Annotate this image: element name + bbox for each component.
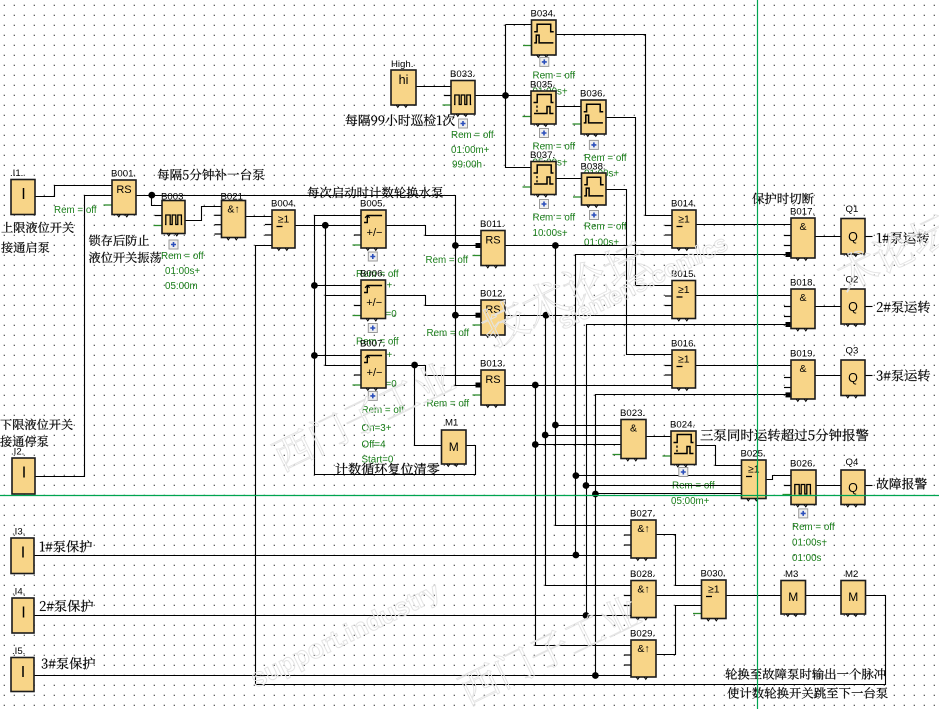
svg-text:B003: B003 (161, 192, 183, 203)
svg-text:.I1.: .I1. (10, 168, 23, 179)
svg-text:B025.: B025. (741, 449, 766, 460)
wire Q1 tag dash (866, 236, 873, 238)
svg-text:M: M (449, 440, 459, 454)
wire B019 out to Q3 (816, 375, 842, 377)
AND B019 (784, 349, 815, 402)
junction B012 line at B023.in2 (542, 432, 549, 439)
wire B006 out to B012.S (387, 296, 482, 306)
svg-text:&↑: &↑ (637, 523, 649, 535)
edge AND B028 (624, 569, 656, 620)
wiping relay B034 (523, 9, 556, 58)
wire B003 out to B021.in1 (186, 207, 222, 221)
junction B001 out / B003 branch (148, 192, 155, 199)
svg-text:High.: High. (391, 59, 413, 70)
svg-text:01:00m+: 01:00m+ (451, 145, 490, 156)
pin square B019.in4 (786, 392, 792, 397)
svg-text:B037.: B037. (530, 150, 555, 161)
junction B013 line at B023.in3 (532, 441, 539, 448)
note interval 5min (158, 169, 265, 181)
junction B007 out to M1 (411, 362, 418, 369)
wire B025.in4 tap (596, 493, 742, 495)
wire B015 out to B018.in1 (696, 295, 792, 297)
input I5 pump3 protect (11, 646, 34, 692)
svg-text:B001.: B001. (111, 169, 136, 180)
wire B005 out to B011.S (387, 226, 482, 236)
up/down counter B007 (353, 339, 387, 391)
wire Q3 tag dash (866, 375, 873, 377)
svg-text:Q: Q (848, 481, 858, 495)
up/down counter B006 (353, 269, 386, 321)
page break line horizontal (0, 495, 939, 497)
svg-text:≥1: ≥1 (678, 214, 690, 226)
junction I5 riser at B025.in4 (592, 491, 599, 498)
note three pumps alarm (701, 429, 869, 441)
svg-text:+: + (387, 281, 393, 292)
svg-text:.I4.: .I4. (12, 587, 25, 598)
svg-text:&: & (630, 423, 637, 435)
junction R bus at B006.R (311, 282, 318, 289)
param expand B037 (540, 200, 549, 209)
svg-text:B029.: B029. (630, 629, 655, 640)
wire B018 out to Q2 (816, 306, 842, 308)
note upper switch line1 (2, 222, 74, 233)
flag M2 (841, 569, 866, 616)
svg-text:M1: M1 (445, 418, 458, 429)
note count rotate (308, 187, 443, 199)
svg-text:Rem = off: Rem = off (584, 222, 627, 233)
note lower switch line1 (1, 419, 73, 430)
wire column to B035.Trg (506, 95, 532, 97)
svg-text:B021: B021 (221, 192, 243, 203)
input I2 level switch lower (11, 447, 35, 495)
junction B011 out drop (552, 242, 559, 249)
wiping relay B038 (573, 162, 606, 208)
junction I4 riser at B025.in3 (583, 482, 590, 489)
wire branch B001 to B003.En (152, 196, 163, 206)
junction I5 line riser (592, 672, 599, 679)
wire B025 out to B026.En (767, 476, 792, 480)
wire B006.R tap (315, 285, 362, 287)
junction B012 out drop (543, 312, 550, 319)
wire B035 out to B036.Trg (557, 106, 582, 108)
junction B001 bus at B011.R (452, 242, 459, 249)
svg-text:Rem = off: Rem = off (161, 251, 204, 262)
param expand B033 (459, 119, 468, 128)
wire B037 out to B038.Trg (557, 178, 582, 180)
wire B014 out to B017.in1 (697, 224, 792, 226)
note latch line2 (89, 252, 161, 263)
wire B023.in1 tap (556, 425, 622, 427)
svg-text:≥1: ≥1 (678, 284, 690, 296)
svg-text:B034.: B034. (531, 9, 556, 20)
svg-text:B005.: B005. (360, 199, 385, 210)
svg-text:≥1: ≥1 (678, 354, 690, 366)
svg-text:.I5.: .I5. (12, 646, 25, 657)
edge wiping relay B024 (663, 420, 697, 467)
note counter reset (336, 463, 440, 475)
output Q4 (841, 457, 865, 507)
wire column riser B034/B035/B037 (506, 25, 532, 168)
svg-text:&↑: &↑ (637, 584, 649, 596)
wire I1 out to B001.S (36, 186, 113, 197)
svg-text:B018.: B018. (790, 278, 815, 289)
svg-text:Rem = off: Rem = off (533, 213, 576, 224)
wire B025.in3 tap (587, 485, 742, 487)
svg-text:M2: M2 (845, 569, 858, 580)
wiping relay B036 (573, 89, 607, 137)
svg-text:M: M (788, 590, 798, 604)
svg-text:M: M (848, 590, 858, 604)
edge AND B021 (215, 192, 246, 240)
wire B030 out to M3 (727, 595, 782, 597)
flag M3 (781, 569, 806, 616)
param expand B007 (368, 391, 377, 400)
note pulse on fault line2 (727, 687, 887, 698)
svg-text:B006.: B006. (360, 269, 385, 280)
wire I3 to B027.in4 (35, 555, 632, 557)
flag M1 (442, 418, 467, 467)
svg-text:B019.: B019. (790, 349, 815, 360)
tag I3 (40, 540, 92, 552)
svg-text:+/−: +/− (367, 227, 383, 239)
wire B013 out to B016.in4 (506, 385, 673, 387)
svg-text:B007.: B007. (360, 339, 385, 350)
wire hi out to B033.En (417, 86, 452, 88)
pulse generator B003 (154, 192, 186, 236)
output Q3 (841, 346, 865, 398)
junction B001 bus at B012.R (452, 312, 459, 319)
junction R bus at B007.R (311, 352, 318, 359)
input I1 level switch upper (10, 168, 35, 215)
watermark (faint diagonal site text) (245, 210, 939, 708)
junction B013 out drop (532, 382, 539, 389)
OR B025 (741, 449, 767, 501)
svg-text:&: & (799, 363, 806, 375)
param expand B024 (679, 468, 688, 477)
wire M2 out feedback to B004.in4 (256, 246, 886, 685)
wire B011 drop to B023.in1/B027.in1 (556, 246, 632, 526)
pin square B018.in4 (786, 322, 792, 327)
note protect cutoff (752, 193, 813, 205)
svg-text:01:00s+: 01:00s+ (792, 538, 827, 549)
pulse generator B026 (783, 459, 817, 507)
note upper switch line2 (1, 242, 49, 253)
wire B023 out to B024.Trg (647, 436, 672, 438)
svg-text:Q: Q (848, 371, 858, 385)
svg-text:01:00s+: 01:00s+ (165, 266, 200, 277)
junction I3 line riser (573, 552, 580, 559)
svg-text:01:00s+: 01:00s+ (584, 238, 619, 249)
svg-text:B024.: B024. (670, 420, 695, 431)
junction I4 line riser (583, 612, 590, 619)
note interval 99h (346, 114, 455, 126)
OR B004 (265, 199, 296, 251)
svg-text:M3: M3 (785, 569, 798, 580)
pin square B017.in4 (786, 252, 792, 257)
edge wiping relay B035 (523, 80, 557, 127)
AND B023 (613, 408, 647, 461)
note lower switch line2 (0, 436, 48, 447)
svg-text:B013.: B013. (480, 359, 505, 370)
wire B023.in2 tap (546, 435, 622, 437)
wire I4 to B028.in4 (35, 615, 632, 617)
svg-text:B030.: B030. (701, 569, 726, 580)
OR B030 (693, 569, 726, 621)
param expand B005 (368, 252, 377, 261)
constant hi (391, 59, 416, 107)
svg-text:B026.: B026. (790, 459, 815, 470)
wire B033 out to pulse-relay column (476, 95, 506, 97)
OR B015 (665, 269, 696, 321)
wire I2 out riser to B001.R (36, 196, 113, 477)
input I3 pump1 protect (11, 527, 34, 574)
svg-text:Q: Q (848, 230, 858, 244)
wire B011 out to B014.in4 (506, 245, 673, 247)
svg-text:Rem = off: Rem = off (427, 399, 470, 410)
wire B007 out branch to M1 (415, 366, 443, 446)
svg-text:05:00m: 05:00m (165, 281, 198, 292)
latch B001 RS (104, 169, 137, 217)
wire Q2 tag dash (866, 306, 873, 308)
input I4 pump2 protect (12, 587, 34, 634)
wire B001 out bus to R inputs of B011-B013 (137, 196, 482, 386)
svg-text:B035.: B035. (530, 80, 555, 91)
edge wiping relay B037 (523, 150, 557, 197)
edge AND B029 (624, 629, 656, 680)
pulse generator B033 (443, 69, 476, 116)
param expand B038 (590, 211, 599, 220)
svg-text:05:00m+: 05:00m+ (671, 496, 710, 507)
wire Q4 tag dash (866, 485, 873, 487)
svg-text:RS: RS (116, 184, 131, 196)
tag Q1 (877, 232, 929, 244)
note pulse on fault line1 (726, 668, 886, 680)
param expand B006 (368, 324, 377, 333)
svg-text:B004.: B004. (271, 199, 296, 210)
OR B016 (665, 339, 696, 391)
edge AND B027 (624, 509, 656, 561)
latch B012 RS (473, 289, 506, 338)
wire B034 out to B014.in1 (557, 35, 673, 216)
svg-text:Rem = off: Rem = off (54, 205, 97, 216)
svg-text:B028.: B028. (630, 569, 655, 580)
tag Q4 (876, 478, 926, 490)
svg-text:B027.: B027. (630, 509, 655, 520)
wire B007.R tap (315, 355, 362, 357)
AND B018 (784, 278, 815, 331)
param expand B003 (169, 240, 178, 249)
svg-text:.I2.: .I2. (11, 447, 24, 458)
wire B028 out to B030.in2 (657, 595, 702, 597)
wire B012 out to B015.in4 (506, 315, 673, 317)
wire B012 drop to B023.in2/B028.in1 (546, 316, 632, 586)
wire B021 out to B004.in1 (246, 216, 273, 218)
wire B025.in2 tap (576, 475, 742, 477)
wire B006.Cnt tap (326, 295, 362, 297)
svg-text:Rem = off: Rem = off (451, 130, 494, 141)
pin square B012.R (476, 313, 482, 318)
param expand B034 (540, 57, 549, 66)
junction I3 riser at B025.in2 (573, 472, 580, 479)
svg-text:≥1: ≥1 (708, 584, 720, 596)
svg-text:B023.: B023. (620, 408, 645, 419)
wire B007 out to B013.S (387, 366, 482, 376)
svg-text:=0: =0 (386, 309, 398, 320)
svg-text:RS: RS (485, 235, 500, 247)
wire B026 out to Q4 (817, 485, 842, 487)
svg-text:.I3.: .I3. (12, 527, 25, 538)
svg-text:+: + (387, 350, 393, 361)
svg-text:Rem = off: Rem = off (426, 255, 469, 266)
wire I4 riser to B018.in4/B025.in3 (587, 325, 792, 616)
wire B038 out to B016.in1 (607, 190, 673, 355)
svg-text:B017.: B017. (790, 207, 815, 218)
svg-text:Rem = off: Rem = off (792, 522, 835, 533)
junction B011 line at B023.in1 (552, 422, 559, 429)
svg-text:B038.: B038. (581, 162, 606, 173)
svg-text:01:00s: 01:00s (792, 553, 822, 564)
wire B004 out to B005.Cnt (296, 225, 362, 227)
wire B017 out to Q1 (816, 236, 842, 238)
svg-text:&↑: &↑ (227, 204, 239, 216)
svg-text:+/−: +/− (366, 297, 382, 309)
svg-text:≥1: ≥1 (278, 214, 290, 226)
svg-text:+/−: +/− (367, 367, 383, 379)
wire B029 out to B030.in3 (657, 606, 702, 655)
wire B024 out to B025.in1 (697, 446, 742, 466)
wire M1 out loop to counter R bus (315, 216, 476, 475)
wire B004.out drop to B006/B007 Cnt (326, 226, 362, 366)
pin square B013.R (476, 383, 482, 388)
wire column to B034.Trg (506, 24, 532, 26)
junction B004 out / counter Cnt bus (322, 222, 329, 229)
wire I5 riser to B019.in4/B025.in4 (596, 395, 792, 676)
wire B012.R tap (456, 315, 482, 317)
param expand B036 (589, 140, 598, 149)
wire B036 out to B015.in1 (607, 118, 673, 286)
tag I4 (40, 600, 93, 612)
wire B013 drop to B023.in3/B029.in1 (536, 386, 632, 646)
svg-text:Q3: Q3 (846, 346, 859, 357)
svg-text:B033.: B033. (450, 69, 475, 80)
output Q2 (841, 275, 865, 327)
wire B016 out to B019.in1 (696, 365, 792, 367)
wire B027 out to B030.in1 (657, 535, 702, 586)
pin square B011.R (476, 243, 482, 248)
svg-text:B011.: B011. (480, 219, 504, 230)
svg-text:B014.: B014. (671, 199, 696, 210)
wire B023.in3 tap (536, 444, 622, 446)
note latch line1 (89, 235, 149, 246)
latch B011 RS (473, 219, 506, 268)
svg-text:Q4: Q4 (846, 457, 859, 468)
AND B017 (784, 207, 815, 261)
junction B033 out column (502, 92, 509, 99)
wire I5 to B029.in4 (35, 675, 632, 677)
param expand B026 (799, 509, 808, 518)
wire B011.R tap (456, 245, 482, 247)
svg-text:&: & (799, 221, 806, 233)
tag I5 (42, 657, 95, 669)
wire I3 riser to B017.in4/B025.in2 (576, 255, 792, 556)
tag Q3 (877, 369, 930, 381)
svg-text:B016.: B016. (671, 339, 696, 350)
svg-text:10:00s+: 10:00s+ (533, 228, 568, 239)
svg-text:Q1: Q1 (846, 204, 859, 215)
tag Q2 (877, 301, 930, 313)
up/down counter B005 (353, 199, 387, 251)
svg-text:B012.: B012. (480, 289, 505, 300)
svg-text:&↑: &↑ (637, 643, 649, 655)
svg-text:Rem = off: Rem = off (427, 328, 470, 339)
param expand B035 (540, 129, 549, 138)
OR B014 (665, 199, 696, 251)
latch B013 RS (473, 359, 506, 408)
svg-text:RS: RS (485, 374, 500, 386)
svg-text:Q: Q (848, 300, 858, 314)
output Q1 (841, 204, 865, 256)
svg-text:&: & (799, 292, 806, 304)
svg-text:B036.: B036. (580, 89, 605, 100)
svg-text:Off=4: Off=4 (362, 440, 387, 451)
svg-text:hi: hi (399, 73, 409, 87)
svg-text:99:00h: 99:00h (452, 159, 482, 170)
page break line vertical (757, 0, 759, 709)
wire M3 out to M2 (806, 595, 842, 597)
